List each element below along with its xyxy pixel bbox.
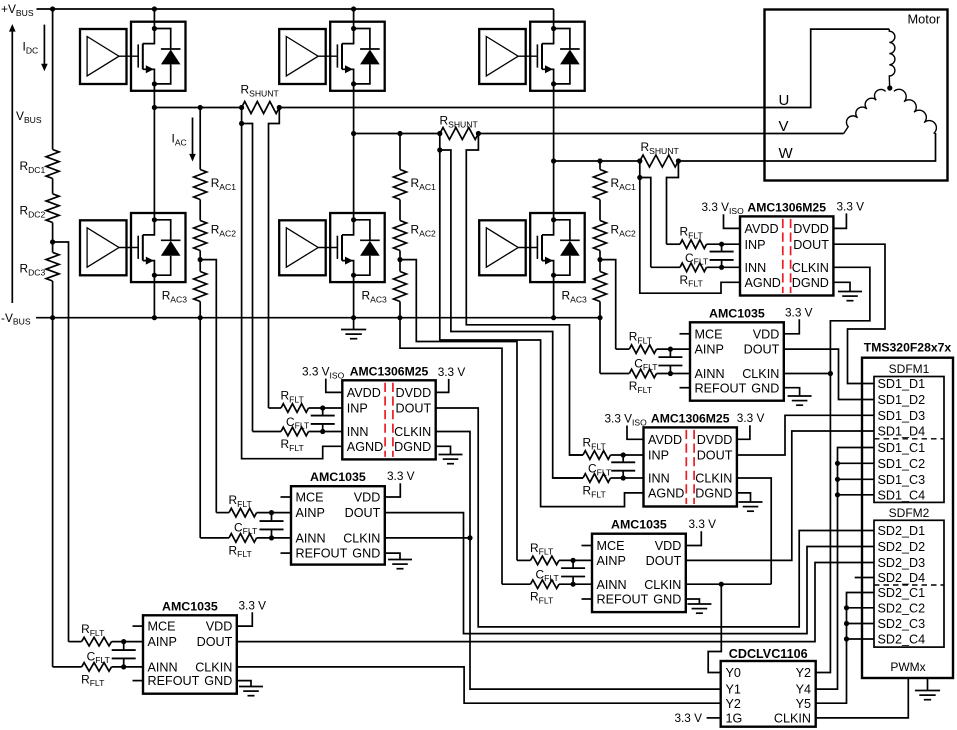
Motor enclosure box (765, 10, 948, 181)
wire leg1 R_AC top lead (199, 108, 201, 170)
wire leg2 R_AC1-R_AC2 (399, 200, 401, 221)
resistor R_AC1 leg1 (194, 170, 207, 200)
node V clock junction (Y0) (719, 582, 724, 587)
svg-text:3.3 V: 3.3 V (837, 199, 865, 213)
wire -V_BUS to AMC1035 V AINN (400, 318, 502, 585)
wire AMC1306 V CLKIN to V clock line (737, 478, 771, 584)
C_FLT of AMC1306 W (721, 244, 723, 251)
svg-text:Motor: Motor (908, 12, 941, 27)
R_FLT bottom of AMC1306 W (651, 266, 680, 268)
svg-text:DVDD: DVDD (793, 222, 829, 236)
wire W clock junction down to CDCLVC Y2 (right) (816, 374, 831, 673)
delta-sigma converter phase U (AMC1035) (291, 486, 385, 564)
junction AMC1035 W INN (668, 371, 673, 376)
wire leg3 R_AC top lead (599, 161, 601, 170)
node Y5/SD2_C2 (844, 605, 849, 610)
wire AMC1306 U CLKIN down to Y1 clock line (436, 432, 721, 690)
svg-text:3.3 V: 3.3 V (674, 711, 702, 725)
svg-text:V: V (779, 118, 789, 135)
svg-text:SD2_C1: SD2_C1 (878, 586, 926, 600)
resistor R_AC2 leg2 (394, 221, 407, 251)
wire leg2 R_AC top lead (399, 134, 401, 170)
node -V_BUS / R_AC leg1 (198, 315, 203, 320)
C_FLT of AMC1035 U (271, 513, 273, 521)
svg-text:SD2_D3: SD2_D3 (878, 556, 926, 570)
svg-text:CLKIN: CLKIN (343, 532, 380, 546)
IGBT leg2 (V) high-side (330, 22, 385, 91)
wire leg2 R_AC3 to -V_BUS (399, 302, 401, 318)
resistor R_SHUNT phase V (440, 128, 479, 140)
wire leg1 R_AC2-R_AC3 (199, 251, 201, 272)
svg-text:SD2_D4: SD2_D4 (878, 571, 926, 585)
wire leg1 R_AC3 to -V_BUS (199, 302, 201, 318)
svg-text:AMC1035: AMC1035 (611, 518, 667, 532)
REFOUT stub of phase V (582, 598, 593, 600)
svg-text:CLKIN: CLKIN (742, 367, 779, 381)
resistor R_DC1 (46, 150, 59, 179)
wire leg3 (W) high-side to phase node (553, 84, 555, 161)
wire AMC1306 W DOUT to SDFM1 SD1_D1 (833, 244, 885, 383)
R_FLT top of AMC1306 W (667, 243, 681, 245)
motor winding V coil (844, 89, 886, 133)
svg-text:MCE: MCE (296, 491, 324, 505)
R_FLT bottom of AMC1035 W (600, 373, 629, 375)
svg-text:SD1_D2: SD1_D2 (878, 393, 926, 407)
node phase/leg3 R_AC top (597, 158, 602, 163)
svg-text:DVDD: DVDD (396, 386, 432, 400)
svg-text:DOUT: DOUT (646, 554, 682, 568)
wire leg3 R_AC1-R_AC2 (599, 200, 601, 221)
resistor R_SHUNT phase U (242, 102, 280, 114)
node phase leg1 (U) (152, 105, 157, 110)
node Y5/SD2_C4 (844, 636, 849, 641)
wire 1G stub (707, 717, 721, 719)
svg-text:TMS320F28x7x: TMS320F28x7x (864, 341, 952, 355)
resistor R_AC1 leg2 (394, 170, 407, 200)
isolated modulator phase V (AMC1306M25) (644, 427, 737, 506)
IGBT leg1 (U) high-side (131, 22, 186, 91)
wire R_DC tap to AMC1035 DC AINP (53, 242, 69, 642)
wire R_DC2-tap (52, 223, 54, 253)
wire phase W line to motor (678, 133, 935, 161)
node -V_BUS / R_AC leg3 (597, 315, 602, 320)
wire phase W line left segment (554, 160, 640, 162)
node -V_BUS / R_DC (50, 315, 55, 320)
svg-text:DGND: DGND (394, 440, 431, 454)
node -V_BUS / leg1 (152, 315, 157, 320)
node phase/leg1 R_AC top (198, 105, 203, 110)
ground at AMC1306 U DGND (436, 446, 451, 454)
C_FLT of AMC1035 W (669, 349, 671, 357)
wire phase U line left segment (154, 107, 241, 109)
SDFM1 module box (874, 377, 944, 503)
svg-text:AINP: AINP (148, 635, 177, 649)
IGBT leg1 (U) low-side (131, 213, 186, 282)
wire leg3 (W) low-side to -V_BUS (553, 275, 555, 318)
svg-text:CLKIN: CLKIN (695, 472, 732, 486)
ground at AMC1035 W GND (784, 388, 800, 396)
ground at MCU (927, 678, 929, 691)
R_FLT top of AMC1306 V (570, 454, 584, 456)
svg-text:CLKIN: CLKIN (792, 261, 829, 275)
svg-text:DGND: DGND (695, 487, 732, 501)
node Y5/SD2_C3 (844, 621, 849, 626)
wire leg3 (W) from +V_BUS to high-side cell (553, 9, 555, 29)
wire leg2 (V) from +V_BUS to high-side cell (353, 9, 355, 29)
junction AMC1035 V INP (571, 558, 576, 563)
svg-text:GND: GND (751, 381, 779, 395)
resistor R_DC3 (46, 252, 59, 281)
svg-text:SD2_C3: SD2_C3 (878, 617, 926, 631)
C_FLT of AMC1306 V (622, 455, 624, 462)
svg-text:Y2: Y2 (726, 697, 741, 711)
resistor R_AC3 leg3 (594, 272, 607, 302)
R_FLT bottom of AMC1035 DC (53, 666, 82, 668)
motor winding W coil (894, 89, 937, 133)
isolation barrier of phase U (384, 383, 386, 457)
svg-text:AGND: AGND (745, 276, 781, 290)
SDFM1 D/C separator (874, 438, 944, 440)
gate driver leg3 (W) low-side (479, 220, 526, 275)
resistor R_AC2 leg1 (194, 221, 207, 251)
svg-text:INP: INP (745, 238, 766, 252)
MCE stub of phase V (582, 545, 593, 547)
gate driver leg3 (W) high-side (479, 29, 526, 84)
R_FLT bottom of AMC1306 V (553, 477, 583, 479)
junction AMC1035 U INN (269, 535, 274, 540)
motor winding U coil (889, 29, 895, 86)
node -V_BUS / leg3 (551, 315, 556, 320)
node phase leg3 (W) (551, 158, 556, 163)
MCE stub of phase W (680, 333, 691, 335)
wire shunt V right sense to AMC1306 V INP (466, 134, 583, 456)
wire CDCLVC Y4 to SDFM1 clocks (816, 448, 874, 690)
resistor R_AC2 leg3 (594, 221, 607, 251)
wire leg2 R_AC2-R_AC3 (399, 251, 401, 272)
R_FLT bottom of AMC1035 V (502, 583, 531, 585)
node +V_BUS / leg1 (152, 6, 157, 11)
R_FLT top of AMC1306 U (269, 407, 282, 409)
node +V_BUS / R_DC1 (50, 6, 55, 11)
svg-text:1G: 1G (726, 712, 743, 726)
isolated modulator phase U (AMC1306M25) (342, 380, 435, 459)
wire R_DC3 to -V_BUS and down to AINN (52, 281, 54, 667)
svg-text:Y2: Y2 (796, 666, 811, 680)
svg-text:MCE: MCE (597, 539, 625, 553)
I_DC current arrow (43, 25, 45, 65)
wire leg1 R_AC1-R_AC2 (199, 200, 201, 221)
svg-text:INP: INP (347, 402, 368, 416)
svg-text:SD1_C2: SD1_C2 (878, 457, 926, 471)
gate driver leg1 (U) high-side (80, 29, 127, 84)
wire AMC1035 U DOUT to SDFM2 SD2_D2 (385, 513, 874, 634)
wire phase V line to motor (478, 133, 843, 135)
resistor R_AC3 leg1 (194, 272, 207, 302)
wire CDCLVC Y5 to SDFM2 clocks (816, 593, 874, 704)
svg-text:3.3 V: 3.3 V (689, 517, 717, 531)
svg-text:Y4: Y4 (796, 683, 811, 697)
delta-sigma converter phase W (AMC1035) (690, 322, 784, 400)
svg-text:AMC1035: AMC1035 (709, 306, 765, 320)
R_FLT top of AMC1035 W (616, 348, 630, 350)
svg-text:Y1: Y1 (726, 683, 741, 697)
node shunt V right (476, 131, 481, 136)
node -V_BUS / leg2 (351, 315, 356, 320)
resistor R_SHUNT phase W (640, 155, 679, 167)
svg-text:INN: INN (648, 472, 670, 486)
ground at AMC1306 W DGND (833, 282, 850, 291)
node shunt W right (676, 158, 681, 163)
wire AMC1035 V DOUT to SDFM1 SD1_D4 (686, 431, 874, 560)
svg-text:VDD: VDD (206, 620, 233, 634)
svg-text:MCE: MCE (148, 620, 176, 634)
node phase/leg2 R_AC top (397, 131, 402, 136)
IGBT leg3 (W) high-side (530, 22, 585, 91)
isolated modulator phase W (AMC1306M25) (740, 216, 833, 295)
svg-text:DOUT: DOUT (197, 635, 233, 649)
svg-text:Y5: Y5 (796, 697, 811, 711)
C_FLT of AMC1306 U (322, 408, 324, 416)
wire leg2 (V) phase node to low-side cell (353, 134, 355, 220)
junction AMC1306 W INN (719, 265, 724, 270)
svg-text:GND: GND (204, 674, 232, 688)
svg-text:INP: INP (648, 449, 669, 463)
node R_DC tap (50, 239, 55, 244)
node W clock junction (828, 371, 833, 376)
wire leg1 (U) from +V_BUS to high-side cell (153, 9, 155, 29)
gate driver leg2 (V) low-side (279, 220, 326, 275)
svg-text:MCE: MCE (695, 327, 723, 341)
node +V_BUS / leg2 (351, 6, 356, 11)
wire shunt W left sense to AMC1306 W INN (639, 161, 641, 178)
wire shunt W right sense to AMC1306 W INP (667, 161, 679, 244)
svg-text:U: U (779, 92, 790, 109)
junction AMC1035 U INP (269, 510, 274, 515)
svg-text:AVDD: AVDD (347, 386, 381, 400)
wire CDCLVC CLKIN from MCU PWM (816, 678, 909, 718)
ground at AMC1035 DC GND (237, 681, 251, 687)
junction AMC1306 V INP (621, 452, 626, 457)
kelvin node below shunt W left (637, 175, 642, 180)
svg-text:AMC1306M25: AMC1306M25 (651, 411, 730, 425)
junction AMC1035 V INN (571, 582, 576, 587)
wire AMC1035 DC DOUT to SDFM2 SD2_D3 (237, 563, 874, 642)
wire AMC1035 V CLKIN line to AMC1306 V CLKIN (686, 583, 771, 585)
isolation barrier of phase V (685, 430, 687, 504)
svg-text:3.3 V: 3.3 V (438, 365, 466, 379)
ground at AMC1306 V DGND (737, 493, 751, 502)
pin stub SD2_D4 (855, 577, 874, 579)
svg-text:CLKIN: CLKIN (394, 425, 431, 439)
wire leg1 (U) phase node to low-side cell (153, 108, 155, 220)
svg-text:AVDD: AVDD (648, 433, 682, 447)
junction AMC1035 DC INP (121, 639, 126, 644)
wire phase V line left segment (354, 133, 440, 135)
isolation barrier of phase W (782, 219, 784, 293)
svg-text:AMC1035: AMC1035 (310, 470, 366, 484)
wire leg3 R_AC tap to AMC1035 W AINP (600, 260, 616, 350)
svg-text:REFOUT: REFOUT (296, 547, 348, 561)
svg-text:3.3 V: 3.3 V (239, 598, 267, 612)
svg-text:VDD: VDD (753, 327, 780, 341)
wire phase U line to motor (279, 29, 889, 107)
V_BUS measurement arrow (11, 31, 13, 303)
svg-text:SD1_C3: SD1_C3 (878, 473, 926, 487)
svg-text:AMC1306M25: AMC1306M25 (747, 200, 826, 214)
IGBT leg3 (W) low-side (530, 213, 585, 282)
svg-text:AINN: AINN (695, 367, 725, 381)
svg-text:PWMx: PWMx (890, 660, 925, 674)
REFOUT stub of phase W (680, 387, 691, 389)
MCE stub of DC bus (133, 625, 144, 627)
svg-text:AINN: AINN (597, 578, 627, 592)
junction AMC1306 U INN (320, 429, 325, 434)
svg-text:CLKIN: CLKIN (644, 578, 681, 592)
svg-text:INN: INN (347, 425, 369, 439)
svg-text:AVDD: AVDD (745, 222, 779, 236)
SDFM2 D/C separator (874, 584, 944, 586)
svg-text:DOUT: DOUT (345, 506, 381, 520)
wire AMC1035 W CLKIN to clock junction (784, 373, 831, 375)
node shunt V left (437, 131, 442, 136)
kelvin node below shunt U left (239, 121, 244, 126)
gate driver leg1 (U) low-side (80, 220, 127, 275)
wire AMC1306 W CLKIN to clock junction (830, 267, 870, 373)
wire shunt U left sense to AMC1306 U INN (241, 108, 243, 124)
node shunt U right (277, 105, 282, 110)
wire V clock junction down to CDCLVC Y0 (708, 584, 721, 672)
node leg1 R_AC tap (198, 257, 203, 262)
wire shunt U left node to AMC1306 U AGND (242, 124, 343, 459)
ground symbol on -V_BUS (353, 318, 355, 330)
junction AMC1306 W INP (719, 242, 724, 247)
delta-sigma converter phase V (AMC1035) (592, 534, 686, 612)
svg-text:AINP: AINP (597, 554, 626, 568)
gate driver leg2 (V) high-side (279, 29, 326, 84)
wire -V_BUS to AMC1035 U AINN (199, 318, 201, 538)
svg-text:AINP: AINP (296, 506, 325, 520)
C_FLT of AMC1035 DC (123, 642, 125, 650)
node leg3 R_AC tap (597, 257, 602, 262)
R_FLT top of AMC1035 V (517, 559, 531, 561)
svg-text:AMC1035: AMC1035 (162, 599, 218, 613)
MCU TMS320F28x7x box (862, 358, 953, 678)
wire +V_BUS rail (37, 8, 554, 10)
resistor R_AC1 leg3 (594, 170, 607, 200)
svg-text:AGND: AGND (347, 440, 383, 454)
svg-text:3.3 V: 3.3 V (737, 411, 765, 425)
node shunt W left (637, 158, 642, 163)
wire AMC1306 U DOUT to SDFM2 SD2_D1 (436, 408, 874, 627)
R_FLT top of AMC1035 DC (69, 641, 82, 643)
wire -V_BUS to AMC1035 W AINN (599, 318, 601, 374)
node -V_BUS / R_AC leg2 (397, 315, 402, 320)
svg-text:REFOUT: REFOUT (148, 674, 200, 688)
clock buffer CDCLVC1106 box (721, 661, 816, 727)
wire AMC1035 W DOUT to SDFM1 SD1_D2 (784, 349, 874, 399)
svg-text:SDFM2: SDFM2 (889, 506, 930, 520)
junction AMC1035 DC INN (121, 664, 126, 669)
wire shunt V left sense to AMC1306 V INN (439, 134, 441, 151)
wire leg1 (U) low-side to -V_BUS (153, 275, 155, 318)
resistor R_AC3 leg2 (394, 272, 407, 302)
junction AMC1306 V INN (621, 475, 626, 480)
svg-text:SD2_D1: SD2_D1 (878, 524, 926, 538)
svg-text:SDFM1: SDFM1 (889, 362, 930, 376)
svg-text:AINN: AINN (296, 532, 326, 546)
I_AC current arrow (192, 118, 194, 155)
svg-text:DOUT: DOUT (744, 343, 780, 357)
svg-text:CLKIN: CLKIN (774, 712, 811, 726)
svg-text:AINP: AINP (695, 343, 724, 357)
wire AMC1035 DC CLKIN to CDCLVC Y2 (left) (237, 667, 721, 703)
svg-text:W: W (779, 145, 794, 162)
svg-text:GND: GND (352, 547, 380, 561)
svg-text:CLKIN: CLKIN (195, 661, 232, 675)
wire leg1 (U) high-side to phase node (153, 84, 155, 108)
wire leg3 (W) phase node to low-side cell (553, 161, 555, 220)
node Y4/SD1_C4 (835, 492, 840, 497)
resistor R_DC2 (46, 194, 59, 223)
R_FLT bottom of AMC1035 U (200, 537, 229, 539)
wire AMC1035 U CLKIN to Y1 junction (385, 537, 470, 539)
wire AMC1306 V DOUT to SDFM1 SD1_D3 (737, 415, 874, 455)
svg-text:3.3 V: 3.3 V (387, 469, 415, 483)
svg-text:SD1_D3: SD1_D3 (878, 409, 926, 423)
MCE stub of phase U (281, 496, 292, 498)
junction AMC1035 W INP (668, 347, 673, 352)
SDFM2 module box (874, 520, 944, 647)
svg-text:DOUT: DOUT (396, 402, 432, 416)
wire -V_BUS rail (36, 317, 600, 319)
svg-text:DGND: DGND (792, 276, 829, 290)
node U clock junction on Y1 line (467, 535, 472, 540)
R_FLT top of AMC1035 U (216, 512, 229, 514)
svg-text:REFOUT: REFOUT (597, 593, 649, 607)
svg-text:Y0: Y0 (726, 666, 741, 680)
node shunt U left (239, 105, 244, 110)
svg-text:3.3 V: 3.3 V (785, 305, 813, 319)
wire shunt W left node to AMC1306 W AGND (640, 178, 740, 294)
svg-text:DOUT: DOUT (793, 238, 829, 252)
kelvin node below shunt V left (437, 147, 442, 152)
node Y4/SD1_C3 (835, 477, 840, 482)
svg-text:INN: INN (745, 261, 767, 275)
REFOUT stub of DC bus (133, 680, 144, 682)
svg-text:DVDD: DVDD (697, 433, 733, 447)
svg-text:CDCLVC1106: CDCLVC1106 (729, 647, 808, 661)
svg-text:REFOUT: REFOUT (695, 381, 747, 395)
svg-text:AINN: AINN (148, 661, 178, 675)
wire leg1 R_AC tap to AMC1035 U AINP (200, 260, 216, 513)
svg-text:GND: GND (653, 593, 681, 607)
wire leg3 R_AC2-R_AC3 (599, 251, 601, 272)
wire leg2 R_AC tap to AMC1035 V AINP (400, 260, 517, 561)
node leg2 R_AC tap (397, 257, 402, 262)
delta-sigma converter DC bus (AMC1035) (143, 615, 237, 693)
ground at AMC1035 V GND (686, 599, 700, 604)
svg-text:DOUT: DOUT (697, 449, 733, 463)
C_FLT of AMC1035 V (572, 560, 574, 568)
svg-text:SD2_C4: SD2_C4 (878, 633, 926, 647)
R_FLT bottom of AMC1306 U (253, 431, 282, 433)
svg-text:SD1_D4: SD1_D4 (878, 425, 926, 439)
node phase leg2 (V) (351, 131, 356, 136)
wire shunt U right sense to AMC1306 U INP (269, 108, 280, 409)
svg-text:SD1_C1: SD1_C1 (878, 441, 926, 455)
wire R_DC chain top lead (52, 9, 54, 150)
wire R_DC1-R_DC2 (52, 179, 54, 194)
